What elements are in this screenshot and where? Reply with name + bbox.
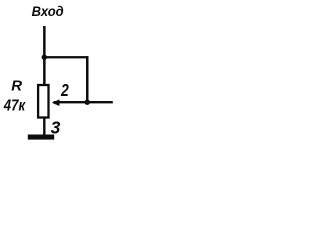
wire: right-side vertical drop <box>86 56 89 103</box>
wire: horizontal branch to the right <box>44 56 88 58</box>
wire: potentiometer bottom lead <box>43 118 45 136</box>
wire: wiper horizontal wire to right edge <box>54 101 113 103</box>
svg-text:2: 2 <box>60 82 69 101</box>
svg-text:3: 3 <box>51 117 61 137</box>
potentiometer R body <box>38 85 48 118</box>
svg-text:47к: 47к <box>3 98 26 115</box>
svg-text:Вход: Вход <box>32 4 64 20</box>
potentiometer wiper arrow (pin 2) <box>52 99 60 106</box>
ground (chassis) bar <box>28 135 54 140</box>
node: junction of vertical drop with wiper wire <box>85 100 90 105</box>
svg-text:R: R <box>11 77 22 94</box>
wire: input vertical from Вход down to potentiometer top <box>43 26 46 84</box>
node: junction of input wire with branch wire <box>42 55 47 60</box>
